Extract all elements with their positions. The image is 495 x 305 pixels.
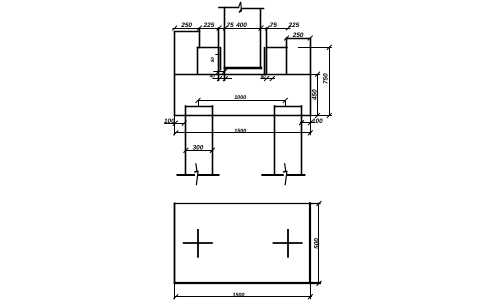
svg-text:400: 400 <box>235 22 247 29</box>
svg-text:1500: 1500 <box>234 128 246 134</box>
svg-text:75: 75 <box>227 22 235 29</box>
svg-text:750: 750 <box>323 73 330 84</box>
svg-text:225: 225 <box>288 22 300 29</box>
svg-text:250: 250 <box>180 22 192 29</box>
svg-text:250: 250 <box>292 32 304 39</box>
svg-text:450: 450 <box>312 89 319 101</box>
svg-text:75: 75 <box>270 22 278 29</box>
svg-text:300: 300 <box>193 145 204 152</box>
svg-text:1000: 1000 <box>234 95 246 101</box>
svg-text:100: 100 <box>312 118 323 125</box>
svg-text:50: 50 <box>261 74 267 79</box>
svg-text:225: 225 <box>203 22 215 29</box>
svg-text:40: 40 <box>209 74 216 79</box>
svg-text:500: 500 <box>314 238 321 249</box>
svg-text:1500: 1500 <box>233 292 245 298</box>
svg-text:50: 50 <box>210 57 215 63</box>
svg-text:100: 100 <box>164 118 175 125</box>
